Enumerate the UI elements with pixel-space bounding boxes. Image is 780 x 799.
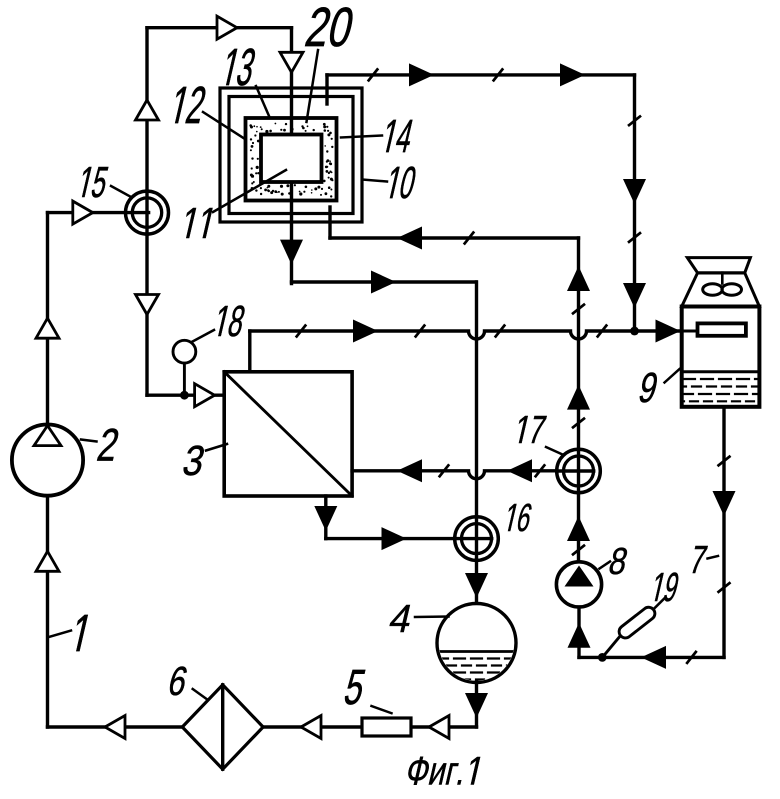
flow arrow left 2 on HX return	[507, 459, 532, 482]
flow arrow up 2 on riser	[567, 385, 590, 410]
restrictor 5	[362, 718, 411, 736]
wire furnace feed drop	[290, 28, 293, 136]
leader for label 5	[372, 706, 392, 713]
label 12	[170, 86, 207, 123]
label 13	[221, 48, 257, 85]
label 4	[388, 605, 413, 632]
heat exchanger 3	[224, 372, 352, 496]
flow arrow right into tank 9	[656, 320, 681, 343]
wire heat exchanger return (with hop)	[352, 471, 557, 479]
pump 16	[455, 517, 499, 561]
tick on riser	[573, 305, 584, 314]
flow arrow right to pump 16	[382, 527, 407, 550]
flow arrow down on HX bottom drop	[314, 506, 337, 531]
leader for label 3	[206, 444, 227, 451]
wire pump 16 to tank 4	[475, 560, 478, 604]
flow arrow left on bottom right line	[641, 646, 666, 669]
check valve (open triangle, left) after restrictor	[301, 716, 321, 739]
leader for label 8	[600, 562, 611, 569]
leader for label 9	[665, 369, 680, 383]
caption Fig.1	[406, 757, 481, 785]
leader for label 18	[193, 330, 215, 342]
tick 2 on right descent	[629, 233, 640, 242]
flow arrow right on main line	[353, 320, 378, 343]
leader for label 15	[111, 186, 132, 198]
wire jacket return line	[330, 236, 579, 239]
label 10	[386, 167, 418, 199]
wire pump 15 down leg	[145, 213, 148, 396]
label 15	[78, 167, 110, 197]
accumulator tank 4	[437, 604, 516, 683]
label 6	[168, 667, 189, 696]
tick on right descent	[629, 116, 640, 125]
vessel second wall	[229, 97, 353, 214]
wire suction line 1	[46, 213, 49, 727]
tick between pumps 17 and 8	[573, 546, 584, 555]
flow arrow down from tank 4	[465, 693, 488, 718]
label 11	[181, 208, 212, 238]
wire tank 9 inlet stub	[682, 330, 698, 333]
gauge 18	[173, 340, 196, 363]
wire bottom return line	[48, 725, 477, 728]
label 8	[608, 548, 629, 575]
tick on main line	[297, 326, 306, 337]
filter 6	[182, 685, 263, 769]
wire into heat exchanger left	[147, 394, 224, 397]
flow arrow down to tank 4	[465, 573, 488, 598]
tick 2 on main line	[416, 326, 425, 337]
wire riser to jacket return	[577, 238, 580, 451]
tick 2 on HX return	[536, 465, 545, 476]
pump 8	[556, 562, 601, 607]
wire to pump 16	[326, 537, 456, 540]
tick from sensor 19 to label	[654, 597, 666, 609]
check valve (open triangle, down) below pump 15	[136, 295, 159, 315]
tick 3 on main line	[496, 326, 505, 337]
junction node at sensor 19	[598, 653, 607, 662]
flow arrow up into pump 17	[567, 516, 590, 541]
flow arrow right on furnace outlet	[371, 271, 396, 294]
flow arrow down on furnace outlet	[280, 240, 303, 265]
label 19	[651, 573, 680, 602]
wire tank 4 outlet	[475, 682, 478, 727]
wire heat exchanger bottom drop	[324, 496, 327, 539]
leader for label 1	[49, 631, 71, 638]
tank 9 agitator	[703, 284, 742, 296]
sensor 19 (capsule)	[617, 605, 658, 641]
tick 2 on riser	[573, 419, 584, 428]
label 14	[382, 120, 415, 152]
leader for label 11	[213, 170, 286, 212]
tick on HX return	[440, 465, 449, 476]
label 17	[514, 416, 546, 443]
flow arrow right on top hot line	[409, 63, 434, 86]
flow arrow up on riser	[567, 266, 590, 291]
leader for label 20	[307, 50, 319, 122]
flow arrow left on HX return	[397, 459, 422, 482]
flow arrow down 2 on right descent	[623, 283, 646, 308]
flow arrow up into pump 8	[568, 623, 591, 648]
label 3	[182, 446, 206, 476]
vessel insulation wall 14 (thick)	[246, 118, 337, 201]
label 20	[305, 7, 355, 46]
leader for label 10	[362, 180, 387, 182]
leader for label 14	[341, 136, 382, 138]
wire vertical drop to pump 16	[475, 282, 478, 517]
insulation stipple 13	[249, 123, 333, 198]
junction node at gauge 18	[180, 391, 189, 400]
jacket outlet stub bottom-right	[328, 207, 331, 238]
tick on bottom right line	[687, 652, 696, 663]
wire main line to tank 9 (with hops)	[250, 331, 698, 339]
wire horizontal furnace outlet to riser	[292, 280, 477, 283]
wire heat-exchanger top riser	[248, 331, 251, 372]
jacket inlet stub top-right	[325, 75, 328, 104]
flow arrow left on jacket return	[397, 227, 422, 250]
tank 9 liquid	[682, 372, 760, 402]
tick on jacket return	[465, 233, 474, 244]
tick on line 7 upper	[719, 457, 730, 466]
label 1	[71, 615, 88, 651]
tick on top hot line	[369, 69, 378, 80]
check valve (open triangle, left) before filter	[105, 716, 125, 739]
leader for label 12	[203, 112, 245, 139]
wire furnace outlet (bottom of vessel 11)	[290, 182, 293, 284]
check valve (open triangle, up) on line 1 upper	[36, 318, 59, 338]
check valve (open triangle, left) after tank 4	[429, 716, 449, 739]
label 5	[343, 670, 366, 704]
wire top hot line	[327, 73, 635, 76]
junction node at tank 9 inlet	[630, 327, 639, 336]
wire pump 15 up leg	[145, 28, 148, 192]
label 16	[504, 504, 533, 532]
leader for label 7	[708, 556, 719, 559]
check valve (open triangle) before pump 15	[73, 201, 93, 224]
check valve (open triangle, up) above pump 15	[136, 100, 159, 120]
flow arrow down on line 7	[713, 491, 736, 516]
tank 9 inlet slot	[698, 323, 746, 335]
leader for label 13	[256, 86, 269, 116]
check valve (open triangle) on top-left wire	[217, 16, 237, 39]
inner vessel 11	[261, 135, 322, 183]
pump 2	[12, 425, 83, 496]
leader for label 17	[546, 447, 563, 455]
gauge 18 stem	[183, 363, 186, 395]
vessel outer wall 10	[220, 88, 362, 222]
check valve (open triangle) into heat exchanger	[195, 384, 215, 407]
pump 17	[557, 449, 601, 493]
label 2	[97, 429, 120, 461]
tick 4 on main line	[598, 326, 607, 337]
leader for label 2	[81, 440, 97, 442]
pump 15	[126, 191, 169, 234]
tick on line 7 lower	[719, 583, 730, 592]
wire right descent to tank 9 junction	[633, 75, 636, 331]
sensor 19 stem	[602, 634, 622, 658]
check valve (open triangle, up) on line 1 lower	[36, 551, 59, 571]
leader for label 4	[415, 615, 449, 618]
label 18	[214, 306, 246, 337]
wire line 7	[722, 407, 725, 658]
tank 9 body	[682, 307, 760, 407]
wire top-left horizontal	[147, 26, 292, 29]
label 7	[689, 546, 707, 573]
wire bottom right horizontal	[579, 656, 724, 659]
tick 2 on top hot line	[494, 69, 503, 80]
wire pump 8 suction	[577, 607, 580, 657]
flow arrow down on right descent	[623, 179, 646, 204]
label 9	[638, 373, 659, 403]
check valve (open triangle, down) on furnace feed	[280, 52, 303, 72]
wire pump 17 to pump 8	[577, 493, 580, 562]
flow arrow right 2 on top hot line	[560, 63, 585, 86]
tank 9 funnel	[682, 258, 760, 307]
leader for label 6	[193, 689, 208, 700]
wire pump 2 discharge to pump 15	[48, 211, 127, 214]
